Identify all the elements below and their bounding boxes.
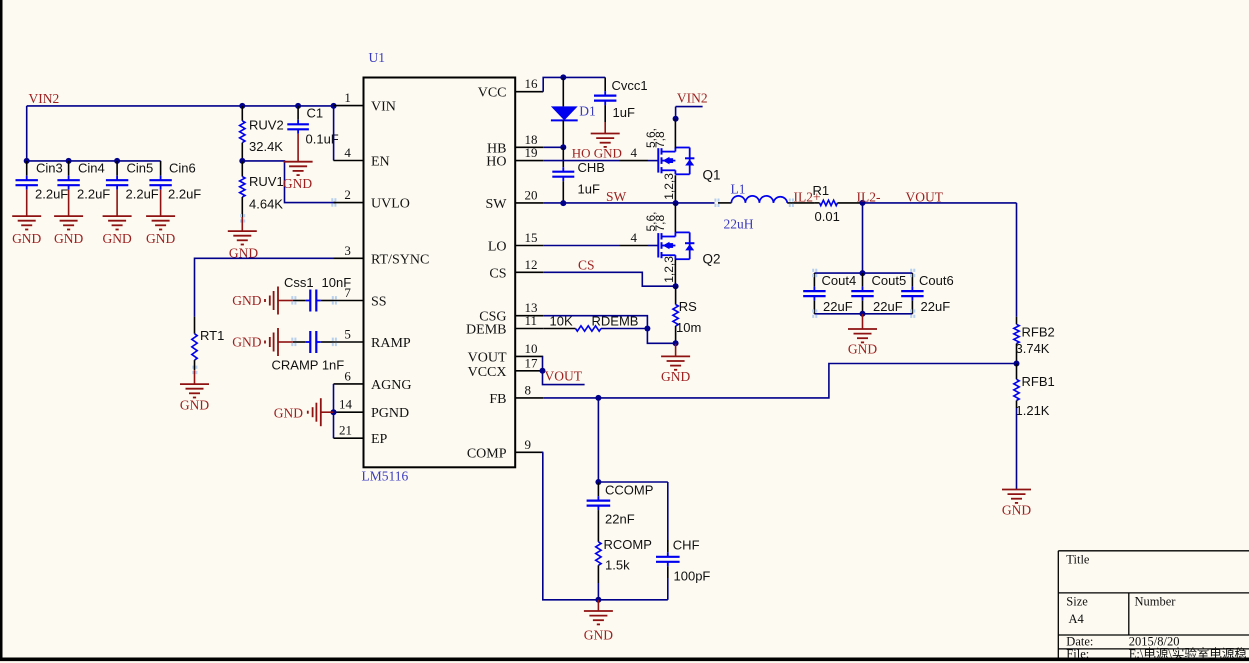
pin 2 UVLO (left): [334, 202, 364, 204]
wire VIN2 to Q1 drain: [675, 107, 677, 119]
svg-text:CS: CS: [578, 258, 595, 273]
svg-text:22uF: 22uF: [873, 299, 903, 314]
junction dot IL2-: [860, 200, 866, 206]
junction dot SW at CHB: [560, 200, 566, 206]
junction dot C1 top: [295, 103, 301, 109]
ground symbol left of Css1: [278, 300, 293, 302]
svg-text:32.4K: 32.4K: [249, 139, 283, 154]
capacitor Cin4 2.2uF: [68, 161, 70, 176]
wire HB to boot cap: [543, 146, 563, 148]
junction dot divider: [239, 158, 245, 164]
wire CHF bottom rail: [598, 599, 667, 601]
junction dot RUV2 top: [239, 103, 245, 109]
no-ERC mark RT1: [192, 366, 194, 369]
svg-text:1,2,3: 1,2,3: [662, 173, 676, 200]
svg-text:PGND: PGND: [371, 406, 409, 421]
svg-text:6: 6: [344, 368, 351, 383]
ground symbol below RS: [675, 343, 677, 356]
svg-text:Cin4: Cin4: [78, 161, 105, 176]
resistor RFB1 1.21K: [1016, 364, 1018, 380]
svg-text:9: 9: [525, 437, 532, 452]
wire DEMB to RS bottom: [647, 329, 675, 344]
svg-text:GND: GND: [661, 369, 690, 384]
junction dot FB node: [1014, 361, 1020, 367]
wire HO to Q1 gate: [543, 160, 619, 162]
svg-text:Cin6: Cin6: [169, 161, 196, 176]
wire VOUT down to RFB2: [1016, 203, 1018, 317]
capacitor Cout6 22uF: [911, 273, 913, 287]
pin 13 CSG (right): [515, 315, 543, 317]
junction dot FB/comp: [595, 395, 601, 401]
svg-text:GND: GND: [1002, 503, 1031, 518]
svg-text:GND: GND: [584, 628, 613, 643]
svg-text:1.5k: 1.5k: [605, 558, 630, 573]
Q2 drain from SW: [674, 203, 676, 232]
wire CHF branch top: [598, 481, 667, 483]
capacitor C1 0.1uF: [297, 106, 299, 120]
svg-text:Cout6: Cout6: [919, 273, 954, 288]
no-ERC mark IL2: [789, 199, 791, 202]
svg-text:RUV2: RUV2: [249, 118, 284, 133]
title block frame: [1058, 550, 1249, 552]
resistor RCOMP 1.5k: [596, 542, 601, 566]
pin 14 PGND (left): [334, 411, 364, 413]
ground symbol for Cin3: [12, 215, 41, 217]
wire FB to divider: [543, 364, 1016, 398]
wire LO to Q2 gate: [543, 245, 619, 247]
junction dot CSG/DEMB: [644, 326, 650, 332]
pin 4 EN (left): [334, 160, 364, 162]
svg-text:GND: GND: [146, 231, 175, 246]
svg-text:SS: SS: [371, 295, 387, 310]
no-ERC marks Css1: [291, 296, 293, 299]
svg-text:3.74K: 3.74K: [1016, 341, 1050, 356]
svg-text:CS: CS: [489, 266, 506, 281]
pin 20 SW (right): [515, 202, 543, 204]
wire VOUT top: [863, 202, 1017, 204]
ground symbol below Cvcc1: [591, 133, 620, 135]
capacitor CRAMP 1nF: [293, 341, 306, 343]
svg-text:RCOMP: RCOMP: [604, 537, 652, 552]
svg-text:SW: SW: [486, 197, 508, 212]
resistor R1 0.01: [815, 202, 820, 204]
svg-text:RUV1: RUV1: [249, 174, 284, 189]
no-ERC mark UVLO: [331, 198, 333, 201]
sheet border bottom edge: [0, 658, 1249, 662]
pin 21 EP (left): [334, 437, 364, 439]
svg-text:GND: GND: [180, 398, 209, 413]
svg-text:LO: LO: [488, 240, 507, 255]
junction dot D1 top: [560, 74, 566, 80]
pin 18 HB (right): [515, 146, 543, 148]
svg-text:7,8: 7,8: [653, 214, 667, 231]
ground symbol below RFB1: [1002, 489, 1031, 491]
junction dot PGND: [331, 409, 337, 415]
svg-text:1uF: 1uF: [613, 105, 635, 120]
wire VIN2 label stub: [676, 106, 703, 108]
pin 8 FB (right): [515, 397, 543, 399]
wire VIN2 left vertical: [26, 106, 28, 161]
svg-text:22uF: 22uF: [921, 299, 951, 314]
pin 9 COMP (right): [515, 451, 543, 453]
capacitor Cin6 2.2uF: [160, 161, 162, 176]
svg-text:CCOMP: CCOMP: [605, 483, 653, 498]
ground symbol left of CRAMP: [278, 341, 293, 343]
wire Cout top rail: [814, 272, 912, 274]
svg-text:RT1: RT1: [200, 328, 224, 343]
pin 10 VOUT (right): [515, 355, 543, 357]
svg-text:Size: Size: [1066, 595, 1088, 609]
ground symbol for Cin5: [103, 215, 132, 217]
svg-text:GND: GND: [54, 231, 83, 246]
inductor L1 22uH: [718, 202, 731, 204]
svg-text:10m: 10m: [676, 320, 701, 335]
svg-text:1,2,3: 1,2,3: [662, 256, 676, 283]
svg-text:Q1: Q1: [703, 168, 721, 183]
capacitor Cout5 22uF: [862, 273, 864, 287]
wire RFB1 to ground: [1016, 408, 1018, 490]
svg-text:14: 14: [339, 397, 353, 412]
resistor RFB2 3.74K: [1016, 317, 1018, 325]
svg-text:Q2: Q2: [703, 252, 721, 267]
ground symbol below Cout: [862, 314, 864, 329]
svg-text:2.2uF: 2.2uF: [168, 187, 201, 202]
svg-text:C1: C1: [307, 106, 324, 121]
pin 3 RT/SYNC (left): [334, 257, 364, 259]
svg-text:4.64K: 4.64K: [249, 197, 283, 212]
svg-text:Cout5: Cout5: [872, 273, 907, 288]
capacitor Cin5 2.2uF: [116, 161, 118, 176]
svg-text:VOUT: VOUT: [468, 350, 507, 365]
pin 15 LO (right): [515, 245, 543, 247]
svg-text:16: 16: [525, 76, 539, 91]
pin 17 VCCX (right): [515, 370, 543, 372]
capacitor Cout4 22uF: [813, 273, 815, 287]
svg-text:HO: HO: [486, 155, 506, 170]
ground symbol for Cin4: [54, 215, 83, 217]
transistor Q2 N-MOSFET: [657, 233, 659, 257]
svg-text:GND: GND: [848, 342, 877, 357]
svg-text:1.21K: 1.21K: [1016, 403, 1050, 418]
Q2 gate pin lead: [620, 245, 649, 247]
svg-text:COMP: COMP: [467, 446, 507, 461]
wire RT/SYNC to RT1: [195, 258, 334, 316]
svg-text:1: 1: [344, 90, 351, 105]
svg-text:4: 4: [631, 230, 638, 245]
junction dot SW at Q1/Q2: [673, 200, 679, 206]
svg-text:11: 11: [525, 313, 538, 328]
wire input cap rail: [27, 160, 161, 162]
svg-text:E:\电源\实验室电源稳: E:\电源\实验室电源稳: [1129, 646, 1248, 661]
svg-text:2.2uF: 2.2uF: [35, 187, 68, 202]
junction dot Cout bottom: [860, 311, 866, 317]
svg-text:File:: File:: [1066, 647, 1089, 661]
wire FB down to CCOMP: [597, 398, 599, 482]
svg-text:RDEMB: RDEMB: [592, 314, 639, 329]
svg-text:RFB1: RFB1: [1022, 374, 1055, 389]
svg-text:U1: U1: [369, 50, 386, 65]
ground symbol below RUV1: [241, 217, 243, 231]
svg-text:21: 21: [339, 423, 352, 438]
Q1 gate pin lead: [620, 160, 649, 162]
svg-text:RAMP: RAMP: [371, 336, 411, 351]
wire Cout bottom rail: [814, 313, 912, 315]
svg-text:VIN2: VIN2: [29, 91, 60, 106]
capacitor Cvcc1 1uF: [604, 77, 606, 91]
svg-text:GND: GND: [283, 176, 312, 191]
svg-text:100pF: 100pF: [674, 569, 711, 584]
svg-text:10: 10: [525, 341, 538, 356]
capacitor CCOMP 22nF: [597, 482, 599, 496]
junction dot RS bottom: [673, 340, 679, 346]
svg-text:D1: D1: [579, 103, 596, 118]
pin 12 CS (right): [515, 271, 543, 273]
ground symbol below RT1: [194, 370, 196, 384]
wire VCCX to VOUT label stub: [543, 371, 585, 385]
svg-text:UVLO: UVLO: [371, 197, 410, 212]
op-amp/regulator U1 LM5116 body: [364, 78, 516, 468]
capacitor CHB 1uF: [562, 147, 564, 167]
wire divider to UVLO: [242, 161, 335, 203]
svg-text:GND: GND: [102, 231, 131, 246]
ground symbol comp network: [597, 600, 599, 611]
wire CS: [543, 272, 675, 286]
transistor Q1 N-MOSFET: [657, 148, 659, 172]
svg-text:FB: FB: [489, 392, 506, 407]
svg-text:VIN2: VIN2: [677, 90, 708, 105]
ground symbol for Cin6: [146, 215, 175, 217]
junction dot CCOMP top: [595, 479, 601, 485]
svg-text:SW: SW: [606, 189, 627, 204]
svg-text:17: 17: [525, 355, 539, 370]
no-ERC marks Cout rail corners: [812, 269, 814, 272]
svg-text:5: 5: [344, 327, 351, 342]
svg-text:L1: L1: [731, 182, 746, 197]
wire CSG: [543, 316, 647, 329]
svg-text:Css1: Css1: [284, 275, 314, 290]
svg-text:2.2uF: 2.2uF: [77, 187, 110, 202]
junction dots on input rail: [24, 158, 30, 164]
svg-text:Number: Number: [1135, 595, 1177, 609]
svg-text:4: 4: [631, 145, 638, 160]
svg-text:VCCX: VCCX: [468, 365, 507, 380]
wire VIN2 top horizontal: [27, 105, 334, 107]
junction dot VCCX: [540, 368, 546, 374]
capacitor CHF 100pF: [667, 482, 669, 540]
resistor RT1: [194, 317, 196, 334]
svg-text:Cvcc1: Cvcc1: [612, 78, 648, 93]
svg-text:12: 12: [525, 257, 538, 272]
svg-text:22nF: 22nF: [605, 512, 635, 527]
junction dot VIN-EN tie: [331, 103, 337, 109]
svg-text:Title: Title: [1066, 553, 1090, 567]
wire VOUT-VCCX tie: [542, 356, 544, 370]
svg-text:8: 8: [525, 382, 532, 397]
svg-text:VOUT: VOUT: [545, 369, 583, 384]
svg-text:EP: EP: [371, 432, 388, 447]
svg-text:22uF: 22uF: [823, 299, 853, 314]
svg-text:GND: GND: [232, 293, 261, 308]
svg-text:GND: GND: [232, 335, 261, 350]
svg-text:RFB2: RFB2: [1022, 325, 1055, 340]
no-ERC mark SW-L1: [714, 199, 716, 202]
pin 1 VIN (left): [334, 105, 364, 107]
pin 19 HO (right): [515, 160, 543, 162]
svg-text:10K: 10K: [550, 314, 573, 329]
diode D1: [562, 77, 564, 106]
svg-text:LM5116: LM5116: [362, 469, 409, 484]
no-ERC marks CRAMP: [291, 338, 293, 341]
pin 6 AGNG (left): [334, 383, 364, 385]
svg-text:0.01: 0.01: [815, 209, 840, 224]
capacitor Cin3 2.2uF: [26, 161, 28, 176]
svg-text:Cin5: Cin5: [127, 161, 154, 176]
resistor RUV2 32.4K: [241, 106, 243, 121]
svg-text:1uF: 1uF: [578, 182, 600, 197]
svg-text:Cout4: Cout4: [822, 273, 857, 288]
resistor RDEMB 10K: [543, 328, 575, 330]
resistor RUV1 4.64K: [241, 161, 243, 177]
wire VCC to top rail: [543, 77, 605, 91]
svg-text:15: 15: [525, 230, 538, 245]
sheet border left edge: [0, 0, 3, 661]
svg-text:DEMB: DEMB: [466, 323, 506, 338]
svg-text:2.2uF: 2.2uF: [126, 187, 159, 202]
svg-text:A4: A4: [1069, 612, 1085, 626]
svg-text:20: 20: [525, 187, 538, 202]
svg-text:2: 2: [344, 187, 351, 202]
svg-text:7,8: 7,8: [653, 131, 667, 148]
svg-text:AGNG: AGNG: [371, 378, 411, 393]
svg-text:Cin3: Cin3: [36, 161, 63, 176]
svg-text:HO GND: HO GND: [572, 146, 622, 161]
pin 16 VCC (right): [515, 91, 543, 93]
svg-text:GND: GND: [12, 231, 41, 246]
wire VIN to EN: [333, 106, 335, 161]
wire IL2- down to Cout rail: [862, 203, 864, 273]
ground symbol below C1: [284, 161, 313, 163]
svg-text:22uH: 22uH: [724, 217, 754, 232]
svg-text:RS: RS: [679, 299, 697, 314]
pin 11 DEMB (right): [515, 328, 543, 330]
ground symbol at PGND: [321, 411, 334, 413]
svg-text:4: 4: [344, 145, 351, 160]
resistor RS 10m: [675, 286, 677, 304]
svg-text:RT/SYNC: RT/SYNC: [371, 252, 429, 267]
svg-text:CHF: CHF: [673, 538, 700, 553]
svg-text:VIN: VIN: [371, 100, 396, 115]
svg-text:3: 3: [344, 243, 351, 258]
wire SW: [543, 202, 714, 204]
svg-text:R1: R1: [813, 183, 830, 198]
wire COMP down: [543, 452, 599, 600]
wire AGNG-PGND-EP: [333, 384, 335, 438]
Q2 source down: [674, 259, 676, 286]
svg-text:CRAMP 1nF: CRAMP 1nF: [272, 358, 345, 373]
junction dot HB: [560, 144, 566, 150]
svg-text:10nF: 10nF: [322, 275, 352, 290]
Q1 source to SW: [674, 175, 676, 203]
junction dot comp ground: [595, 597, 601, 603]
svg-text:GND: GND: [274, 406, 303, 421]
no-ERC mark RUV1 ground lead: [240, 214, 242, 217]
svg-text:CHB: CHB: [578, 160, 605, 175]
capacitor Css1 10nF: [293, 300, 306, 302]
pin 5 RAMP (left): [334, 341, 364, 343]
pin 7 SS (left): [334, 300, 364, 302]
svg-text:19: 19: [525, 145, 538, 160]
svg-text:VCC: VCC: [478, 86, 507, 101]
svg-text:EN: EN: [371, 155, 390, 170]
junction dot Q2 source / CS: [673, 283, 679, 289]
